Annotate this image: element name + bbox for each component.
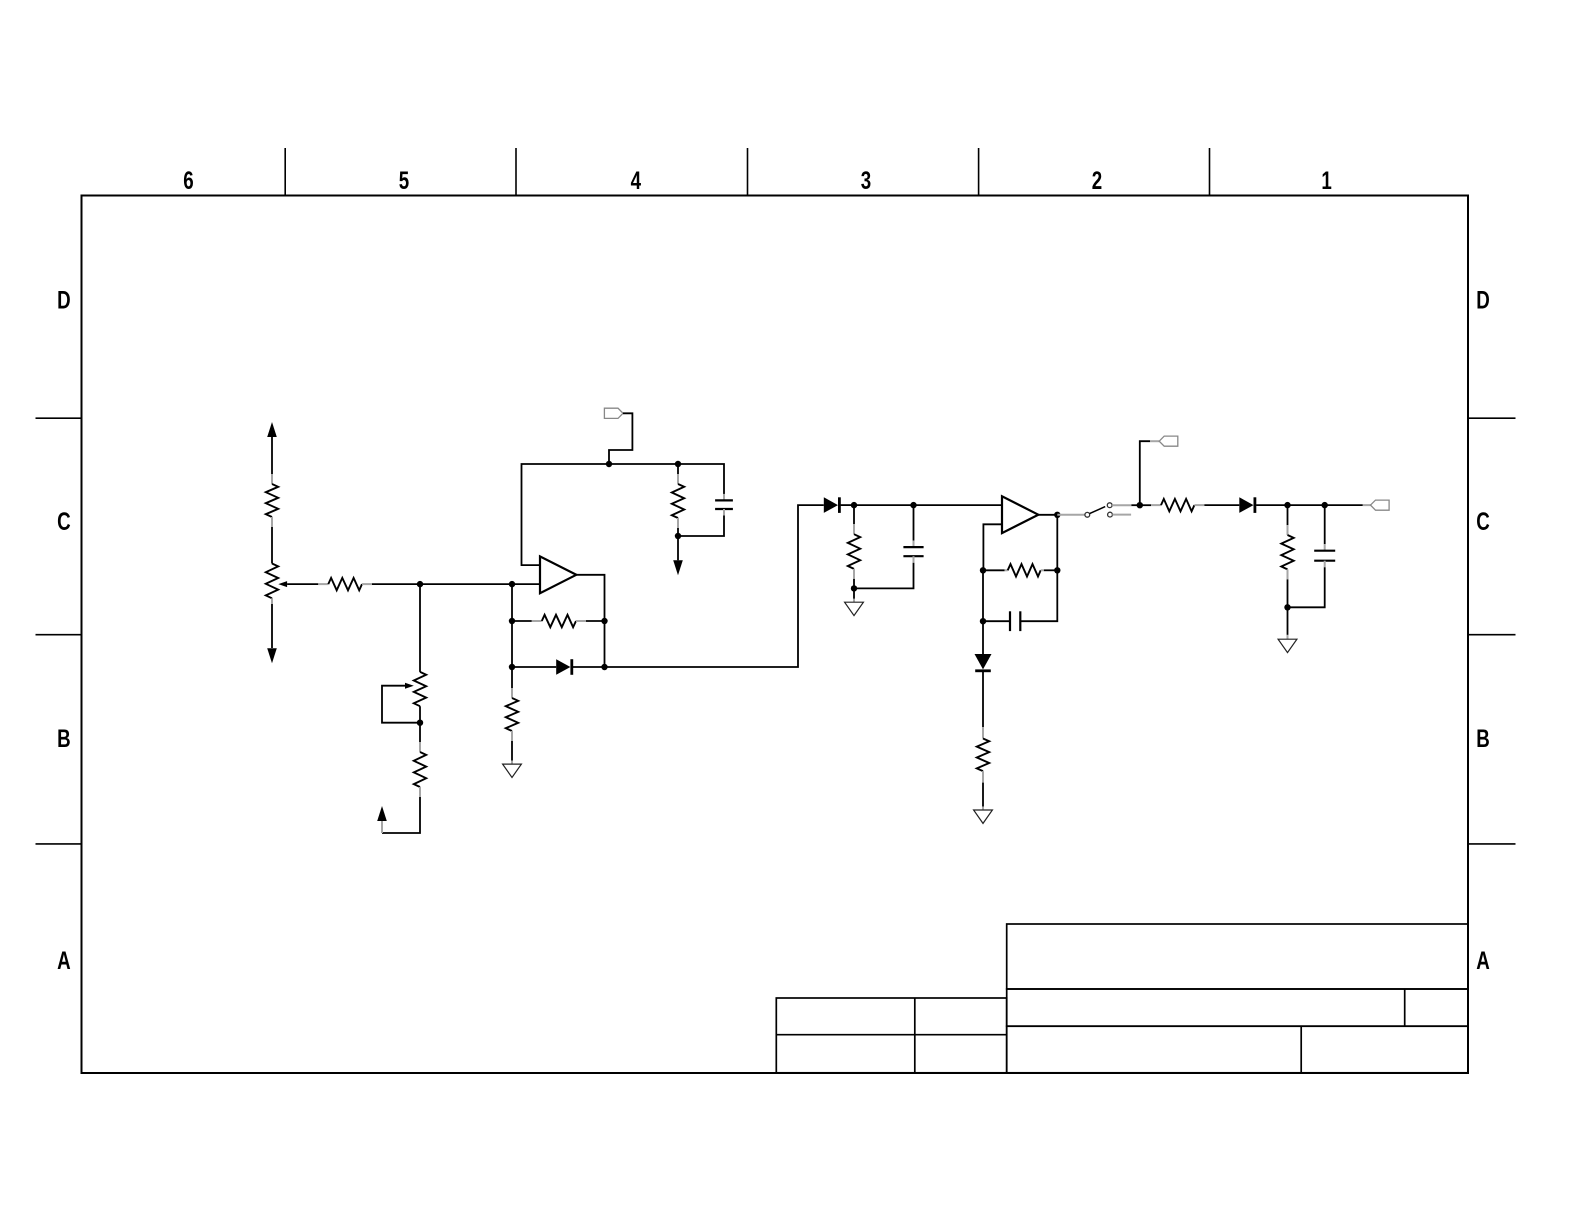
capacitor C1 bbox=[723, 494, 725, 501]
wire junction bbox=[675, 533, 681, 539]
svg-text:D: D bbox=[57, 286, 71, 314]
wire bbox=[982, 621, 984, 654]
potentiometer R4 wiper arrow bbox=[405, 683, 414, 689]
wire junction bbox=[1137, 502, 1143, 508]
wire bbox=[1044, 569, 1057, 571]
resistor R5 bbox=[419, 742, 421, 752]
wire bbox=[1288, 567, 1325, 607]
ground bbox=[853, 588, 855, 598]
wire bbox=[573, 666, 605, 668]
wire bbox=[982, 570, 984, 621]
svg-text:D: D bbox=[1476, 286, 1490, 314]
wire bbox=[982, 672, 984, 727]
diode D4 bbox=[1239, 497, 1253, 513]
wire bbox=[982, 783, 984, 807]
wire junction bbox=[1322, 502, 1328, 508]
resistor R12 bbox=[1151, 504, 1161, 506]
wire junction bbox=[417, 720, 423, 726]
wire junction bbox=[910, 502, 916, 508]
wire bbox=[419, 706, 421, 723]
wire bbox=[609, 413, 632, 464]
wire bbox=[1288, 504, 1325, 506]
ground bbox=[974, 810, 993, 823]
resistor R1 bbox=[271, 474, 273, 484]
io flag CTRL pin bbox=[1150, 440, 1159, 442]
wire bbox=[983, 620, 1010, 622]
svg-text:4: 4 bbox=[631, 166, 642, 194]
svg-text:B: B bbox=[1476, 724, 1490, 752]
wire bbox=[576, 575, 604, 621]
wire bbox=[420, 583, 512, 585]
wire bbox=[271, 598, 273, 648]
wire junction bbox=[601, 664, 607, 670]
wire bbox=[1140, 504, 1151, 506]
wire bbox=[983, 569, 1005, 571]
wire bbox=[382, 797, 420, 833]
wire bbox=[609, 463, 678, 465]
wire bbox=[604, 621, 606, 667]
wire bbox=[522, 464, 610, 565]
wire junction bbox=[980, 618, 986, 624]
wire bbox=[1131, 504, 1139, 506]
svg-text:A: A bbox=[57, 946, 71, 974]
wire bbox=[512, 583, 540, 585]
wire junction bbox=[601, 618, 607, 624]
io flag CTRL bbox=[1159, 436, 1178, 446]
op-amp U2 bbox=[1002, 496, 1038, 533]
wire bbox=[983, 524, 1002, 570]
wire bbox=[511, 621, 513, 667]
resistor R8 bbox=[511, 688, 513, 698]
wire bbox=[1204, 504, 1239, 506]
svg-text:1: 1 bbox=[1321, 166, 1331, 194]
svg-text:B: B bbox=[57, 724, 71, 752]
wire bbox=[372, 583, 420, 585]
wire bbox=[512, 620, 532, 622]
wire junction bbox=[1284, 604, 1290, 610]
wire bbox=[678, 464, 724, 494]
wire junction bbox=[606, 461, 612, 467]
diode D3 bbox=[975, 654, 992, 669]
wire bbox=[853, 579, 855, 589]
wire bbox=[419, 584, 421, 672]
switch SW1 throw 2 pin bbox=[1112, 514, 1131, 516]
wire junction bbox=[509, 581, 515, 587]
power arrow V+ pin bbox=[381, 821, 383, 833]
svg-text:C: C bbox=[1476, 507, 1490, 535]
wire bbox=[605, 505, 824, 667]
svg-text:6: 6 bbox=[183, 166, 193, 194]
potentiometer R2 body bbox=[266, 564, 278, 599]
wire bbox=[382, 686, 420, 723]
power arrow V- rail bbox=[267, 648, 277, 663]
wire bbox=[419, 723, 421, 742]
wire bbox=[1325, 504, 1363, 506]
capacitor C4 bbox=[1324, 505, 1326, 544]
wire junction bbox=[509, 618, 515, 624]
wire bbox=[511, 584, 513, 621]
wire bbox=[1140, 441, 1150, 505]
wire bbox=[1056, 515, 1058, 571]
svg-text:C: C bbox=[57, 507, 71, 535]
diode D1 bbox=[556, 659, 570, 675]
wire bbox=[512, 666, 556, 668]
wire bbox=[677, 528, 679, 536]
potentiometer R2 wiper arrow bbox=[278, 581, 287, 587]
svg-text:5: 5 bbox=[399, 166, 409, 194]
wire bbox=[1287, 579, 1289, 607]
wire bbox=[1038, 514, 1057, 516]
svg-text:2: 2 bbox=[1092, 166, 1102, 194]
wire bbox=[586, 620, 605, 622]
power arrow V+ rail bbox=[267, 422, 277, 437]
switch SW1 lever bbox=[1090, 507, 1106, 514]
ground bbox=[503, 764, 522, 777]
switch SW1 throw 1 pin bbox=[1112, 504, 1131, 506]
wire junction bbox=[851, 502, 857, 508]
power arrow V- pin bbox=[677, 536, 679, 560]
wire bbox=[914, 504, 1003, 506]
io flag VOUT bbox=[1371, 500, 1390, 510]
wire bbox=[678, 516, 724, 537]
resistor R13 bbox=[1287, 505, 1289, 525]
io flag VREF bbox=[604, 408, 623, 418]
resistor R9 bbox=[853, 505, 855, 524]
svg-text:3: 3 bbox=[861, 166, 871, 194]
wire bbox=[1256, 504, 1287, 506]
op-amp U1 bbox=[540, 556, 576, 593]
resistor R7 bbox=[532, 620, 542, 622]
resistor R11 bbox=[982, 727, 984, 739]
wire bbox=[854, 504, 914, 506]
resistor R6 bbox=[677, 464, 679, 474]
resistor R10 bbox=[1005, 569, 1008, 571]
capacitor C2 bbox=[913, 505, 915, 540]
wire bbox=[287, 583, 318, 585]
resistor R3 bbox=[318, 583, 328, 585]
wire junction bbox=[417, 581, 423, 587]
switch SW1 pole pin bbox=[1057, 514, 1085, 516]
wire junction bbox=[509, 664, 515, 670]
wire bbox=[511, 667, 513, 688]
wire junction bbox=[1284, 502, 1290, 508]
switch SW1 throw 1 contact bbox=[1107, 503, 1112, 508]
wire junction bbox=[1054, 512, 1060, 518]
wire bbox=[1020, 570, 1057, 621]
diode D2 bbox=[824, 497, 838, 513]
potentiometer R4 body bbox=[414, 672, 426, 706]
wire junction bbox=[675, 461, 681, 467]
capacitor C3 bbox=[1009, 611, 1011, 631]
wire bbox=[841, 504, 854, 506]
svg-text:A: A bbox=[1476, 946, 1490, 974]
switch SW1 throw 2 contact bbox=[1108, 512, 1113, 517]
ground bbox=[1287, 607, 1289, 635]
switch SW1 pole contact bbox=[1085, 512, 1090, 517]
wire bbox=[854, 563, 914, 589]
wire bbox=[271, 527, 273, 564]
io flag VOUT pin bbox=[1363, 504, 1371, 506]
wire junction bbox=[980, 567, 986, 573]
wire junction bbox=[1054, 567, 1060, 573]
wire bbox=[511, 741, 513, 761]
wire junction bbox=[851, 585, 857, 591]
